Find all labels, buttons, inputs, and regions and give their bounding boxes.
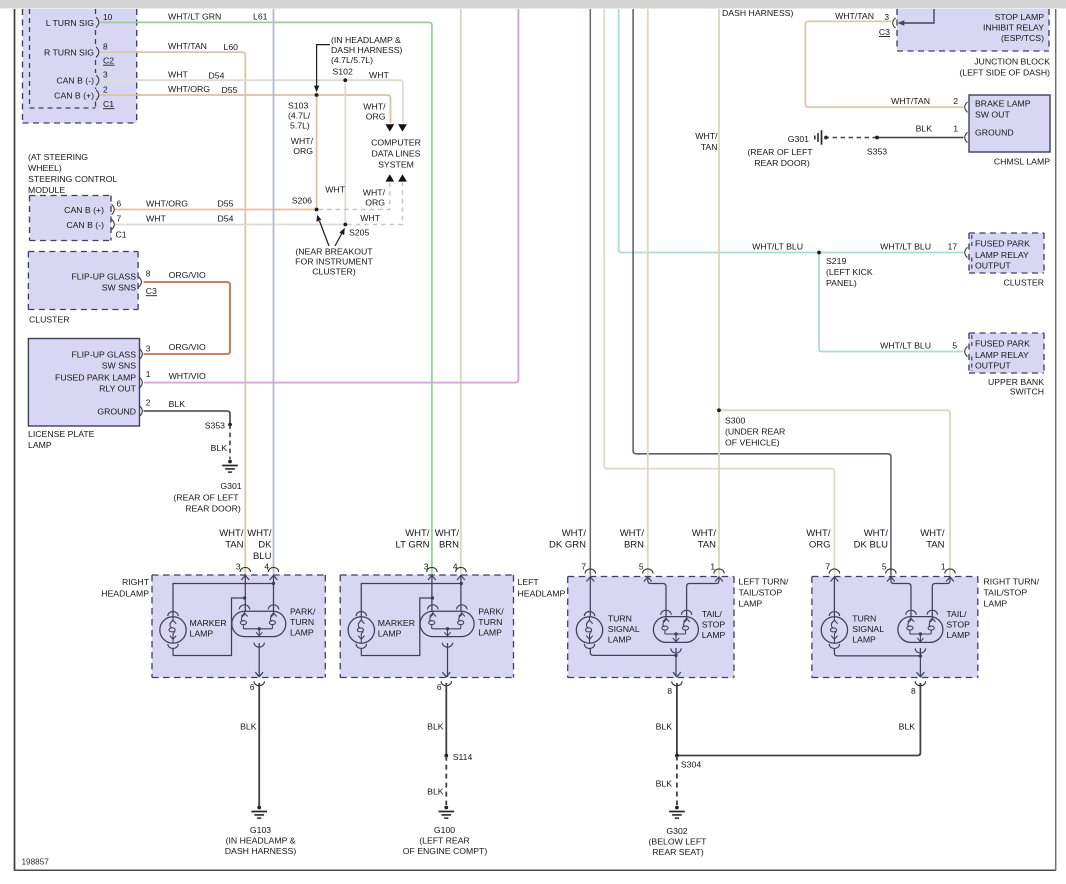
svg-text:G100: G100 [434,825,455,835]
wire label WHT/ORG [168,84,210,94]
svg-text:7: 7 [581,562,586,572]
pin 2 BRAKE LAMP SW OUT [953,96,1030,119]
text FUSED PARK LAMP RELAY OUTPUT [975,239,1030,271]
sheet number 198857 [22,858,50,867]
svg-text:STOP: STOP [702,620,726,630]
svg-text:LAMP RELAY: LAMP RELAY [975,250,1029,260]
svg-text:WHT/: WHT/ [920,528,945,539]
svg-text:BLK: BLK [656,779,673,789]
caption RIGHT TURN/TAIL/STOP LAMP [984,577,1040,609]
steering control module box [30,196,112,241]
connector C3 label [879,27,890,37]
dashed wire BLK from S304 to ground G302 [656,756,677,806]
svg-text:MARKER: MARKER [378,618,415,628]
svg-text:(4.7L/5.7L): (4.7L/5.7L) [331,55,373,65]
svg-text:LAMP: LAMP [608,634,632,644]
svg-text:ORG: ORG [809,540,831,551]
net label L61 [253,11,268,21]
relay internal wire with arrow to pin 3 [898,9,935,26]
svg-text:ORG/VIO: ORG/VIO [169,342,206,352]
wire WHT/LT BLU from S219 down then right to upper bank switch pin 5 [819,253,964,352]
wire label WHT/TAN [891,96,930,106]
svg-text:(UNDER REAR: (UNDER REAR [725,427,785,437]
svg-text:(4.7L/: (4.7L/ [288,111,311,121]
wire BLK from CHMSL pin 1 to S353 [877,137,964,139]
splice S353 (right) [867,136,887,157]
left headlamp pin 3 entry [424,562,437,581]
svg-text:CHMSL LAMP: CHMSL LAMP [994,157,1050,167]
splice S114 [444,752,472,762]
svg-text:WHT/: WHT/ [363,188,386,198]
svg-text:SW OUT: SW OUT [975,110,1010,120]
svg-text:TAN: TAN [701,142,718,152]
svg-text:LAMP: LAMP [946,630,970,640]
wire label WHT/ORG (left of S103 vertical) [291,136,314,156]
svg-text:DK: DK [258,540,272,551]
svg-text:FUSED PARK: FUSED PARK [975,339,1030,349]
svg-text:BLK: BLK [240,722,257,732]
svg-text:LAMP: LAMP [290,628,314,638]
svg-text:ORG: ORG [365,198,385,208]
svg-text:CAN B (+): CAN B (+) [54,91,94,101]
wire WHT/TAN branch from S300 right then down to right tail lamp pin 1 [719,410,950,576]
svg-text:LT GRN: LT GRN [396,540,430,551]
svg-text:RIGHT: RIGHT [122,577,150,587]
svg-text:CAN B (-): CAN B (-) [66,220,104,230]
wire BLK right headlamp to ground [240,683,259,806]
svg-text:WHT: WHT [146,214,166,224]
svg-text:TURN: TURN [290,617,314,627]
wire WHT/DK BLU vertical then right to right tail lamp pin 5 [633,9,891,576]
svg-text:2: 2 [103,85,108,95]
svg-text:C1: C1 [103,99,114,109]
wire label WHT/LT BLU (left of S219) [752,242,803,252]
tail/stop lamp bulb (right) [898,610,943,653]
connector C1 label [116,230,127,240]
svg-text:1: 1 [146,369,151,379]
wire label WHT/TAN [835,11,874,21]
label MARKER LAMP [190,618,227,639]
splice S102 [343,78,347,82]
ground G302 (below left rear seat) [649,806,708,857]
svg-text:(REAR OF LEFT: (REAR OF LEFT [173,493,239,503]
wire WHT vertical from S102 to S205 [344,80,346,224]
svg-text:(IN HEADLAMP &: (IN HEADLAMP & [226,836,296,846]
svg-text:3: 3 [884,12,889,22]
splice S206 [292,195,319,211]
label S103 (4.7L/5.7L) [288,101,311,131]
svg-text:TAN: TAN [926,540,944,551]
svg-text:WHT/: WHT/ [405,528,430,539]
splice S103 [315,93,319,97]
svg-text:LAMP: LAMP [739,599,763,609]
pin 7 CAN B (-) [66,214,121,231]
left tail lamp pin 7 entry [581,562,595,582]
svg-text:WHT/VIO: WHT/VIO [169,371,206,381]
svg-text:BLK: BLK [656,722,673,732]
wire WHT/LT BLU vertical then right to S219 and cluster pin 17 [619,9,964,253]
svg-text:8: 8 [667,686,672,696]
ground G103 (in headlamp and dash harness) [225,806,297,856]
right headlamp pin 6 exit [250,672,265,692]
svg-text:FLIP-UP GLASS: FLIP-UP GLASS [71,272,136,282]
left headlamp pin 6 exit [437,672,452,692]
svg-text:LAMP RELAY: LAMP RELAY [975,350,1029,360]
caption LEFT TURN/TAIL/STOP LAMP [739,577,789,609]
caption LEFT HEADLAMP [518,577,566,599]
pin 17 of cluster fused park lamp relay output [948,242,968,258]
svg-text:SIGNAL: SIGNAL [852,624,884,634]
svg-text:LAMP: LAMP [478,628,502,638]
dashed wire BLK from S114 to ground G100 [427,756,446,805]
caption JUNCTION BLOCK (LEFT SIDE OF DASH) [959,57,1050,78]
svg-text:WHT/TAN: WHT/TAN [891,96,930,106]
svg-text:(LEFT SIDE OF DASH): (LEFT SIDE OF DASH) [959,68,1050,78]
wire BLK left tail lamp to S304 [656,683,677,756]
wire label WHT (dashed riser) [360,213,380,223]
svg-text:WHT: WHT [168,69,188,79]
svg-text:WHT/: WHT/ [291,136,314,146]
label MARKER LAMP [378,618,415,639]
svg-text:GROUND: GROUND [97,407,136,417]
svg-text:SW SNS: SW SNS [102,361,136,371]
svg-text:WHT/ORG: WHT/ORG [168,84,210,94]
pin 2 GROUND [97,398,150,417]
svg-text:DATA LINES: DATA LINES [372,149,421,159]
pin 1 GROUND [953,124,1013,143]
wire D54 WHT from CAN B(-) pin 3 through S102 to computer data lines arrow [100,80,403,123]
svg-text:4: 4 [453,562,458,572]
ground G100 (left rear of engine compt) [403,806,488,856]
svg-text:L TURN SIG: L TURN SIG [46,18,95,28]
svg-text:WHT/: WHT/ [864,528,889,539]
svg-text:3: 3 [103,70,108,80]
svg-text:5: 5 [882,562,887,572]
svg-text:CLUSTER: CLUSTER [29,315,70,325]
svg-text:BLK: BLK [169,399,186,409]
svg-text:D54: D54 [209,70,225,80]
right headlamp pin 4 entry [264,562,278,581]
turn signal lamp bulb (right) [821,612,847,649]
svg-text:OF ENGINE COMPT): OF ENGINE COMPT) [403,846,488,856]
svg-text:S353: S353 [205,421,225,431]
svg-text:DK GRN: DK GRN [549,540,586,551]
svg-text:C3: C3 [146,286,157,296]
computer data lines system off-page arrows (up) [385,174,407,181]
svg-text:WHT/: WHT/ [620,528,645,539]
wire label WHT/TAN (left tail lamp pin 1) [692,528,717,551]
wire label WHT above S102 branch [369,70,389,80]
caption RIGHT HEADLAMP [101,577,149,599]
svg-text:LAMP: LAMP [702,630,726,640]
svg-text:L61: L61 [253,11,268,21]
svg-text:DASH HARNESS): DASH HARNESS) [722,8,794,18]
svg-text:BLK: BLK [427,787,444,797]
svg-text:SIGNAL: SIGNAL [608,624,640,634]
pin 10 L TURN SIG [46,12,113,28]
right tail lamp pin 1 entry [941,562,955,582]
svg-text:INHIBIT RELAY: INHIBIT RELAY [983,23,1044,33]
svg-text:198857: 198857 [22,858,50,867]
svg-text:WHT/: WHT/ [695,131,718,141]
label TURN SIGNAL LAMP [608,613,640,644]
connector C1 label [103,99,115,109]
wire label WHT [146,214,166,224]
svg-text:S205: S205 [349,228,369,238]
label TURN SIGNAL LAMP [852,613,884,644]
label PARK/TURN LAMP [478,607,504,638]
splice S300 (under rear of vehicle) [717,408,785,447]
svg-text:LEFT TURN/: LEFT TURN/ [739,577,789,587]
svg-text:S353: S353 [867,147,887,157]
svg-text:LICENSE PLATE: LICENSE PLATE [28,429,95,439]
svg-text:FLIP-UP GLASS: FLIP-UP GLASS [71,350,136,360]
svg-text:WHT/LT GRN: WHT/LT GRN [168,11,221,21]
label PARK/TURN LAMP [290,607,316,638]
svg-text:3: 3 [146,344,151,354]
svg-text:DK BLU: DK BLU [854,540,888,551]
svg-text:WHT/: WHT/ [806,528,831,539]
svg-text:R TURN SIG: R TURN SIG [44,48,94,58]
wire label WHT/TAN (right headlamp pin 3) [219,528,244,551]
net label D54 [209,70,225,80]
svg-text:CAN B (-): CAN B (-) [56,76,94,86]
fused park lamp relay output box (upper bank switch) [969,333,1044,373]
svg-text:S103: S103 [288,101,308,111]
leader (NEAR BREAKOUT FOR INSTRUMENT CLUSTER) with arrows to S206 and S205 [295,215,373,277]
svg-text:ORG/VIO: ORG/VIO [169,270,206,280]
pin 8 R TURN SIG [44,42,108,58]
svg-text:FOR INSTRUMENT: FOR INSTRUMENT [295,257,373,267]
park/turn lamp bulb (right headlamp) [232,605,286,647]
svg-text:COMPUTER: COMPUTER [371,138,421,148]
svg-text:OUTPUT: OUTPUT [975,261,1011,271]
wire D55 WHT/ORG from CAN B(+) pin 2 through S103 to computer data lines arrow [100,95,391,123]
dashed wire WHT from S205 to computer data lines up-arrow [347,183,402,225]
fused park lamp relay output box (cluster) [969,233,1044,273]
svg-text:5: 5 [952,341,957,351]
svg-text:C1: C1 [116,230,127,240]
left turn/tail/stop lamp box [568,577,734,678]
svg-text:WHT/LT BLU: WHT/LT BLU [880,341,931,351]
svg-text:TAIL/: TAIL/ [702,609,723,619]
svg-text:S102: S102 [333,67,353,77]
wire stubs over module fill (pins 10,8,3,2) [100,22,141,95]
license plate lamp box [28,339,139,427]
wire WHT/BRN vertical to left tail lamp pin 5 [647,9,649,576]
svg-text:(LEFT KICK: (LEFT KICK [826,267,873,277]
svg-text:7: 7 [825,562,830,572]
svg-text:(LEFT REAR: (LEFT REAR [419,836,470,846]
svg-text:BLK: BLK [916,124,933,134]
wire D54 WHT from steering CAN B(-) pin 7 to S205 [114,224,345,226]
wire L60 WHT/TAN from R TURN SIG pin 8 to right headlamp pin 3 [100,52,245,575]
splice S219 (left kick panel) [817,251,873,288]
wire label BLK [916,124,933,134]
svg-text:WHT/TAN: WHT/TAN [835,11,874,21]
wire WHT/DK BLU vertical to right headlamp pin 4 [273,9,275,575]
svg-text:STOP LAMP: STOP LAMP [995,12,1045,22]
pin 1 FUSED PARK LAMP RLY OUT [55,369,151,394]
svg-text:REAR DOOR): REAR DOOR) [754,158,810,168]
svg-text:7: 7 [117,214,122,224]
wire label WHT/DK GRN (left tail lamp pin 7) [549,528,586,551]
svg-text:LAMP: LAMP [852,634,876,644]
svg-text:SWITCH: SWITCH [1010,387,1044,397]
svg-text:S206: S206 [292,195,312,205]
wire label WHT/DK BLU (right headlamp pin 4) [247,528,272,562]
label TAIL/STOP LAMP [702,609,726,640]
svg-text:C3: C3 [879,27,890,37]
svg-text:TAN: TAN [698,540,716,551]
wire BLK left headlamp to S114 [427,683,446,756]
net label D55 [222,85,238,95]
svg-text:MARKER: MARKER [190,618,227,628]
wire label WHT/DK BLU (right tail lamp pin 5) [854,528,889,551]
wire WHT/DK GRN vertical to left tail lamp pin 7 [589,9,591,576]
tail/stop lamp bulb (left) [653,610,698,653]
svg-text:SYSTEM: SYSTEM [378,160,414,170]
svg-text:LAMP: LAMP [378,629,402,639]
svg-text:BLK: BLK [899,722,916,732]
svg-text:GROUND: GROUND [975,128,1014,138]
right tail lamp pin 7 entry [825,562,839,582]
svg-text:G302: G302 [666,826,687,836]
svg-text:HEADLAMP: HEADLAMP [101,589,149,599]
svg-text:G301: G301 [788,134,809,144]
svg-text:OUTPUT: OUTPUT [975,361,1011,371]
top gray bar (viewport clip) [0,0,1066,9]
svg-text:6: 6 [117,199,122,209]
svg-text:HEADLAMP: HEADLAMP [518,589,566,599]
svg-text:D55: D55 [222,85,238,95]
pin 3 FLIP-UP GLASS SW SNS [71,344,150,371]
right tail lamp internal wiring [834,577,950,677]
left headlamp pin 4 entry [453,562,466,581]
svg-text:WHT: WHT [325,185,345,195]
svg-text:D55: D55 [218,199,234,209]
svg-text:(REAR OF LEFT: (REAR OF LEFT [747,147,813,157]
svg-text:BLK: BLK [427,722,444,732]
svg-text:1: 1 [953,124,958,134]
svg-text:WHT/ORG: WHT/ORG [146,199,188,209]
svg-text:(ESP/TCS): (ESP/TCS) [1001,33,1044,43]
wire label BLK [169,399,186,409]
svg-text:CLUSTER): CLUSTER) [312,267,356,277]
wire WHT/BRN vertical to left headlamp pin 4 [460,9,462,575]
caption CHMSL LAMP [994,157,1050,167]
svg-text:WHT/: WHT/ [363,102,386,112]
svg-text:WHT/TAN: WHT/TAN [168,41,207,51]
wire label WHT/ORG (right tail lamp pin 7) [806,528,831,551]
wire WHT/ORG vertical then right to right tail lamp pin 7 [604,9,834,576]
ground G301 (rear of left rear door, right side) [747,130,827,168]
pin 5 of upper bank switch fused park lamp relay output [952,341,967,357]
wire label WHT/ORG (dashed riser) [363,188,386,208]
svg-text:REAR DOOR): REAR DOOR) [185,504,241,514]
svg-text:FUSED PARK LAMP: FUSED PARK LAMP [55,373,136,383]
splice S304 [675,754,701,770]
wire label WHT (S102 riser) [325,185,345,195]
ground G301 (rear of left rear door) [173,460,241,514]
right tail lamp pin 5 entry [882,562,896,582]
module connector block (top left, clipped) with L/R turn signal and CAN B pins [23,9,137,123]
net label L60 [224,42,239,52]
svg-text:D54: D54 [218,214,234,224]
svg-text:LAMP: LAMP [28,440,52,450]
svg-text:BRN: BRN [439,540,459,551]
svg-text:PARK/: PARK/ [290,607,316,617]
svg-text:WHT: WHT [369,70,389,80]
CHMSL lamp box [969,95,1050,152]
wire D55 WHT/ORG from steering CAN B(+) pin 6 to S206 [114,209,317,211]
svg-text:WHT/: WHT/ [562,528,587,539]
svg-text:5: 5 [639,562,644,572]
leader (IN HEADLAMP & DASH HARNESS) (4.7L/5.7L) S102 with arrow to S103 wire [314,35,403,92]
svg-text:OF VEHICLE): OF VEHICLE) [725,438,780,448]
svg-text:FUSED PARK: FUSED PARK [975,239,1030,249]
label TAIL/STOP LAMP [946,609,970,640]
wire label ORG/VIO (bottom) [169,342,206,352]
marker lamp bulb (right headlamp) [160,612,186,649]
splice S353 (left) [205,421,232,431]
wire label WHT/TAN [168,41,207,51]
cluster box [28,252,138,310]
wire BLK right tail lamp to S304 [677,683,921,756]
net label D54 [218,214,234,224]
left tail lamp pin 5 entry [639,562,653,582]
svg-text:WHT/LT BLU: WHT/LT BLU [752,242,803,252]
svg-text:BRAKE LAMP: BRAKE LAMP [975,99,1031,109]
svg-text:TAN: TAN [225,540,243,551]
pin 2 CAN B (+) [54,85,108,101]
svg-text:TAIL/STOP: TAIL/STOP [984,588,1028,598]
wire label WHT [168,69,188,79]
wire label WHT/BRN (left tail lamp pin 5) [620,528,645,551]
wire label WHT/LT GRN [168,11,221,21]
right turn/tail/stop lamp box [812,577,978,678]
wire BLK from license plate lamp ground pin to S353 [144,411,231,425]
svg-text:CLUSTER: CLUSTER [1003,278,1044,288]
svg-text:WHT/: WHT/ [435,528,460,539]
wire label WHT/BRN (left headlamp pin 4) [435,528,460,551]
wire label ORG/VIO (top) [169,270,206,280]
wire label WHT/TAN (right tail lamp pin 1) [920,528,945,551]
dashed wire BLK from S353 to ground G301 [211,425,230,459]
connector C2 label [103,56,115,66]
park/turn lamp bulb (left headlamp) [420,605,474,647]
wire label WHT/LT GRN (left headlamp pin 3) [396,528,430,551]
svg-text:5.7L): 5.7L) [290,121,310,131]
svg-text:17: 17 [948,242,958,252]
svg-text:RIGHT TURN/: RIGHT TURN/ [984,577,1040,587]
svg-text:8: 8 [911,686,916,696]
wire L61 WHT/LT GRN from L TURN SIG pin 10 to left headlamp pin 3 [100,22,432,575]
inner connector line (upper bank switch box) [971,335,973,371]
wire label WHT/LT BLU (right of S219) [880,242,931,252]
svg-text:BLK: BLK [211,443,228,453]
svg-text:2: 2 [953,96,958,106]
svg-text:TURN: TURN [478,617,502,627]
svg-text:8: 8 [146,269,151,279]
svg-text:WHT/: WHT/ [219,528,244,539]
wire label WHT/TAN (top riser) [695,131,718,152]
svg-text:STOP: STOP [946,620,970,630]
clipped harness note DASH HARNESS) [722,8,794,18]
svg-text:LAMP: LAMP [190,629,214,639]
svg-text:S304: S304 [681,760,701,770]
text FUSED PARK LAMP RELAY OUTPUT [975,339,1030,371]
